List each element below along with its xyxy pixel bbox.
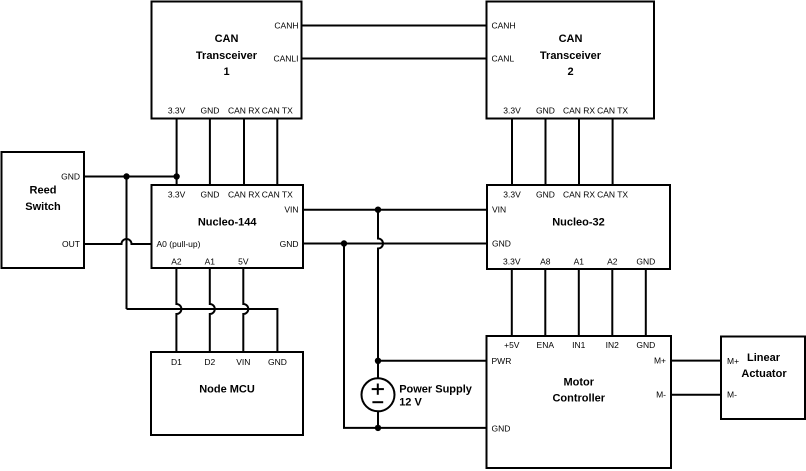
svg-text:M-: M- [727,390,737,400]
svg-text:A1: A1 [574,256,585,266]
svg-text:A0 (pull-up): A0 (pull-up) [157,239,201,249]
svg-text:5V: 5V [238,256,249,266]
svg-text:D1: D1 [171,357,182,367]
svg-text:IN2: IN2 [606,340,620,350]
wire U3 A1 to U5 D2 with hop [210,268,215,352]
svg-text:M-: M- [656,390,666,400]
svg-text:M+: M+ [727,356,739,366]
junction node ground rail [375,425,381,431]
svg-text:A1: A1 [205,256,216,266]
svg-text:PWR: PWR [492,356,512,366]
wire GND riser left [343,244,345,428]
svg-text:GND: GND [200,189,219,199]
svg-text:M+: M+ [654,356,666,366]
svg-text:D2: D2 [204,357,215,367]
svg-text:CAN TX: CAN TX [597,189,628,199]
svg-text:IN1: IN1 [572,340,586,350]
wire U1 3.3V to U3 3.3V [176,119,178,186]
svg-text:2: 2 [567,66,573,78]
wire S1 GND to node A [84,176,177,178]
svg-text:ENA: ENA [537,340,555,350]
svg-text:A8: A8 [540,256,551,266]
junction node VIN branch [375,207,381,213]
wire U1 CAN TX to U3 CAN TX [276,119,278,186]
wire CANL net U1-U2 [302,58,487,60]
value label PS1 Power Supply 12 V [399,383,473,408]
wire CANH net U1-U2 [302,25,487,27]
junction node B S1 GND to U1 3.3V riser [173,173,179,179]
svg-text:+5V: +5V [504,340,520,350]
svg-text:GND: GND [536,106,555,116]
wire GND net U3-U4 [303,243,487,245]
svg-text:CAN: CAN [215,33,239,45]
wire U4 A1 to U6 IN1 [578,269,580,336]
svg-text:Controller: Controller [552,393,605,405]
svg-text:CANL: CANL [492,54,515,64]
svg-text:GND: GND [61,172,80,182]
wire U2 GND to U4 GND [545,119,547,186]
wire PWR feed to U6 PWR [378,360,487,362]
svg-text:Nucleo-32: Nucleo-32 [552,217,605,229]
svg-text:Transceiver: Transceiver [540,50,602,62]
junction node PWR branch [375,358,381,364]
svg-text:CANLI: CANLI [273,54,298,64]
wire U2 CAN RX to U4 CAN RX [578,119,580,186]
wire S1 OUT to U3 A0 with hop [84,239,152,244]
svg-text:12 V: 12 V [399,396,422,408]
svg-text:GND: GND [268,357,287,367]
wire node A riser down [126,177,128,310]
svg-text:CANH: CANH [492,21,516,31]
wire U4 3.3V to U6 +5V [511,269,513,336]
block U1 CAN Transceiver 1 [152,2,302,119]
junction node GND branch [341,240,347,246]
power supply PS1 symbol [362,378,395,411]
svg-text:CAN RX: CAN RX [228,189,260,199]
wire U4 GND to U6 GND [645,269,647,336]
wire PS1 minus to ground rail [377,411,379,428]
svg-text:GND: GND [280,239,299,249]
svg-text:VIN: VIN [284,205,298,215]
svg-text:A2: A2 [171,256,182,266]
wire U1 CAN RX to U3 CAN RX [243,119,245,186]
wire U3 5V to U5 VIN with hop [243,268,248,352]
svg-text:CAN TX: CAN TX [262,106,293,116]
block U5 Node MCU [151,352,303,435]
svg-text:GND: GND [636,256,655,266]
block U2 CAN Transceiver 2 [487,2,655,119]
svg-text:3.3V: 3.3V [503,189,521,199]
block U4 Nucleo-32 [487,185,670,269]
svg-text:CAN: CAN [559,33,583,45]
svg-text:3.3V: 3.3V [168,189,186,199]
svg-text:Transceiver: Transceiver [196,50,258,62]
svg-text:3.3V: 3.3V [503,106,521,116]
svg-text:A2: A2 [607,256,618,266]
svg-text:GND: GND [492,239,511,249]
svg-text:CANH: CANH [274,21,298,31]
svg-text:CAN RX: CAN RX [563,189,595,199]
wire U1 GND to U3 GND [209,119,211,186]
svg-text:Reed: Reed [30,185,57,197]
svg-text:CAN TX: CAN TX [262,189,293,199]
svg-text:GND: GND [492,423,511,433]
wire ground rail to U6 GND [378,427,487,429]
block M1 Linear Actuator [721,337,805,420]
svg-text:1: 1 [223,66,229,78]
svg-text:Linear: Linear [747,352,781,364]
junction node A on S1 GND line [123,173,129,179]
svg-text:CAN TX: CAN TX [597,106,628,116]
svg-text:Actuator: Actuator [741,368,787,380]
wire VIN net U3-U4 [303,209,487,211]
svg-text:OUT: OUT [62,239,80,249]
svg-text:Motor: Motor [563,377,594,389]
svg-text:3.3V: 3.3V [168,106,186,116]
wire U2 3.3V to U4 3.3V [511,119,513,186]
wire U3 A2 to U5 D1 with hop [176,268,181,352]
svg-text:CAN RX: CAN RX [228,106,260,116]
block U3 Nucleo-144 [152,185,304,268]
wire U6 M+ to M1 M+ [671,360,721,362]
svg-text:GND: GND [636,340,655,350]
wire U4 A8 to U6 ENA [544,269,546,336]
svg-text:Switch: Switch [25,201,61,213]
svg-text:VIN: VIN [492,205,506,215]
svg-text:3.3V: 3.3V [503,256,521,266]
svg-text:Node MCU: Node MCU [199,384,255,396]
svg-text:GND: GND [200,106,219,116]
svg-text:Power Supply: Power Supply [399,383,473,395]
wire U2 CAN TX to U4 CAN TX [612,119,614,186]
wire U6 M- to M1 M- [671,394,721,396]
svg-text:Nucleo-144: Nucleo-144 [198,217,258,229]
wire U4 A2 to U6 IN2 [611,269,613,336]
block U6 Motor Controller [487,336,672,468]
svg-text:GND: GND [536,189,555,199]
wire ground feed to U5 GND [127,308,278,310]
wire VIN riser to PS1 plus with hop [378,210,383,379]
svg-text:CAN RX: CAN RX [563,106,595,116]
block S1 Reed Switch [2,152,85,268]
svg-text:VIN: VIN [236,357,250,367]
